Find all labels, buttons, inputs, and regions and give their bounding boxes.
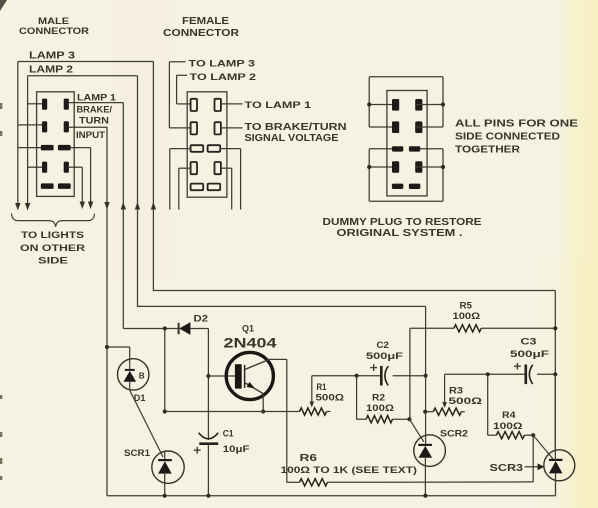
wire: male row3 left pin to lamp3 drop <box>18 147 41 149</box>
male pin row3 right <box>58 145 71 151</box>
label + pointer: SCR3 <box>490 463 545 474</box>
svg-text:500Ω: 500Ω <box>449 396 483 407</box>
SCR1 <box>152 451 184 496</box>
female pin row2 right (hollow) <box>215 122 221 134</box>
svg-text:TO LAMP 3: TO LAMP 3 <box>189 59 256 70</box>
male pin row4 right <box>64 162 69 173</box>
label: ALL PINS FOR ONE SIDE CONNECTED TOGETHER <box>455 119 578 156</box>
SCR3 <box>544 374 575 495</box>
svg-text:TOGETHER: TOGETHER <box>455 145 521 156</box>
label: C2 500uF <box>366 340 403 361</box>
svg-text:R2: R2 <box>372 393 385 403</box>
arrow: lamp3 line up <box>151 202 156 210</box>
svg-text:TO LAMP 1: TO LAMP 1 <box>245 100 312 111</box>
svg-text:DUMMY PLUG TO RESTORE: DUMMY PLUG TO RESTORE <box>323 217 482 228</box>
male pin row2 left <box>42 121 47 132</box>
junction: SCR2 gate node <box>407 417 411 421</box>
male pin row1 right <box>64 99 69 110</box>
transistor Q1 <box>226 352 273 399</box>
dummy pin row5 right <box>409 184 420 189</box>
svg-text:TO LAMP 2: TO LAMP 2 <box>190 72 257 83</box>
dummy pin row5 left <box>392 184 403 189</box>
label: R3 500 ohm <box>449 386 483 408</box>
svg-text:R6: R6 <box>300 453 318 464</box>
svg-text:R4: R4 <box>502 410 517 420</box>
svg-text:2N404: 2N404 <box>224 336 277 352</box>
junction: R2 branch <box>355 374 359 378</box>
dummy pin row1 right <box>415 99 422 111</box>
wire: male row2 left pin to lamp3 drop <box>18 124 42 126</box>
svg-text:100Ω: 100Ω <box>453 311 481 321</box>
label: INPUT <box>76 130 105 140</box>
wire: Q1 emitter to mid rail <box>261 394 265 414</box>
svg-text:SIGNAL VOLTAGE: SIGNAL VOLTAGE <box>245 133 339 144</box>
junction dots: dummy upper loop <box>367 102 445 106</box>
svg-text:CONNECTOR: CONNECTOR <box>19 26 89 37</box>
arrows: male connector outputs to lights <box>15 202 93 211</box>
wire: R5 left drop to gate node <box>409 328 411 419</box>
label: LAMP 3 <box>29 51 76 62</box>
junction: SCR3 gate node <box>531 433 535 437</box>
dummy pin row4 left <box>392 161 399 173</box>
dummy plug body <box>387 91 427 196</box>
male pin row5 right <box>58 183 71 189</box>
female pin row3 left (hollow) <box>191 145 204 152</box>
wire: outer top rail (lamp3 net) <box>153 290 555 292</box>
svg-text:100Ω: 100Ω <box>493 420 523 431</box>
label: SCR1 <box>124 448 151 459</box>
diode D1 <box>118 359 149 391</box>
svg-text:R3: R3 <box>449 386 463 396</box>
label: R2 100 ohm <box>366 393 394 414</box>
svg-text:100Ω: 100Ω <box>366 403 394 413</box>
svg-text:SCR3: SCR3 <box>490 463 524 474</box>
svg-text:INPUT: INPUT <box>76 130 105 140</box>
svg-text:10μF: 10μF <box>223 444 250 454</box>
svg-text:D2: D2 <box>194 314 209 324</box>
wire: male row1 right pin LAMP1 net down to D2 <box>69 103 123 329</box>
male pin row5 left <box>41 183 54 189</box>
SCR2 <box>414 435 446 496</box>
male pin row4 left <box>42 162 47 173</box>
brace: to lights on other side <box>12 214 95 227</box>
svg-text:LAMP 1: LAMP 1 <box>77 93 117 104</box>
wire: female row4 left drop <box>179 168 191 209</box>
label: TO LIGHTS ON OTHER SIDE <box>20 230 85 267</box>
wire: right rail down to SCR3 <box>554 291 556 451</box>
svg-text:TO LIGHTS: TO LIGHTS <box>21 230 85 241</box>
wire: bottom rail <box>107 495 556 497</box>
female pin row3 right (hollow) <box>208 145 221 152</box>
wire: R3 lead on SCR2 anode <box>425 411 433 413</box>
dummy pin row2 left <box>392 121 399 133</box>
svg-text:500μF: 500μF <box>366 350 403 361</box>
female pin row1 left (hollow) <box>191 99 197 111</box>
wire: SCR3 gate diagonal <box>533 435 553 459</box>
resistor R5 <box>410 325 558 332</box>
svg-text:LAMP 2: LAMP 2 <box>29 65 74 76</box>
label: LAMP 1 <box>77 93 117 104</box>
wire: female row3 left drop <box>170 149 191 210</box>
label: SCR2 <box>440 429 468 440</box>
capacitor C1 <box>194 433 218 496</box>
wire: male row2 right pin INPUT net down to left rail <box>69 127 107 496</box>
resistor R4 <box>488 374 534 439</box>
wire + label: TO BRAKE/TURN SIGNAL VOLTAGE <box>221 122 347 144</box>
junction: R4 branch <box>486 372 490 376</box>
label: R5 100 ohm <box>453 301 481 322</box>
svg-text:TO BRAKE/TURN: TO BRAKE/TURN <box>245 122 347 133</box>
diode D1 stub from left rail <box>105 345 130 359</box>
wire: dummy lower loop (rows3-4 shorted) <box>369 149 443 202</box>
male pin row1 left <box>42 99 47 110</box>
svg-text:Q1: Q1 <box>242 324 254 334</box>
svg-text:SCR1: SCR1 <box>124 448 151 459</box>
svg-text:R1: R1 <box>317 382 327 392</box>
svg-text:500Ω: 500Ω <box>316 393 345 403</box>
label: FEMALE CONNECTOR title <box>163 16 240 39</box>
wire: C3 top wire <box>445 372 558 376</box>
wire: mid rail <box>163 409 300 413</box>
wire: D2 to Q1 base / C1 <box>207 329 209 440</box>
female pin row5 right (hollow) <box>208 184 221 191</box>
label: B (inside D1) <box>139 371 145 380</box>
svg-text:LAMP 3: LAMP 3 <box>29 51 76 62</box>
dummy pin row3 right <box>409 146 420 151</box>
svg-text:TURN: TURN <box>79 115 109 125</box>
svg-text:BRAKE/: BRAKE/ <box>77 105 113 115</box>
svg-text:B: B <box>139 371 145 380</box>
svg-text:CONNECTOR: CONNECTOR <box>163 28 240 39</box>
svg-text:C1: C1 <box>223 428 234 438</box>
wire: inner top rail (lamp2 net to SCR2) <box>138 306 426 375</box>
label: MALE CONNECTOR title <box>19 16 89 37</box>
female connector body <box>187 92 227 197</box>
wire: SCR2 gate diagonal <box>409 419 423 442</box>
arrow: input line down <box>104 202 109 210</box>
female pin row5 left (hollow) <box>191 184 204 191</box>
wire: female row4 right drop <box>221 168 232 209</box>
arrow: lamp1 line up <box>121 202 126 210</box>
wire: D2 input wire <box>123 328 178 330</box>
label: DUMMY PLUG TO RESTORE ORIGINAL SYSTEM <box>323 217 482 239</box>
svg-text:100Ω TO 1K (SEE TEXT): 100Ω TO 1K (SEE TEXT) <box>281 465 418 475</box>
label: LAMP 2 <box>29 65 74 76</box>
resistor R6 <box>287 435 533 486</box>
label: C1 10uF <box>223 428 250 454</box>
resistor R1 (rheostat) <box>300 376 331 415</box>
female pin row2 left (hollow) <box>191 122 197 134</box>
junction: Q1 base node <box>206 374 235 378</box>
junction node: D2 wire branch down to mid rail <box>163 326 167 411</box>
wire: lamp 2 net (horizontal + left drop + right drop to circuit) <box>28 76 138 307</box>
dummy pin row4 right <box>415 161 422 173</box>
arrow: lamp2 line up <box>135 202 140 210</box>
label: D2 <box>194 314 209 324</box>
svg-text:C3: C3 <box>521 337 537 348</box>
capacitor C2 <box>370 364 388 385</box>
wire: C2/SCR2 anode vertical <box>423 374 428 445</box>
resistor R3 (rheostat) <box>433 374 465 415</box>
junction dots: dummy lower loop <box>367 165 445 169</box>
female pin row4 left (hollow) <box>191 162 197 174</box>
svg-text:500μF: 500μF <box>510 348 549 359</box>
wire: male row3 right pin drop <box>71 148 91 202</box>
wire: female row3 right drop <box>220 149 240 210</box>
svg-text:C2: C2 <box>377 340 390 350</box>
svg-text:SIDE CONNECTED: SIDE CONNECTED <box>455 132 560 143</box>
female pin row4 right (hollow) <box>215 162 221 174</box>
junction dots: bottom rail <box>163 494 428 498</box>
label: BRAKE/TURN <box>77 105 113 126</box>
wire + label: TO LAMP 1 <box>221 100 312 111</box>
diode D2 <box>179 322 209 335</box>
male pin row3 left <box>41 145 54 151</box>
male connector body <box>37 92 75 197</box>
wire: male row4 right pin drop <box>69 167 82 201</box>
svg-text:SCR2: SCR2 <box>440 429 468 440</box>
wire: male row1 left pin to lamp2 drop <box>28 103 42 105</box>
svg-text:ON OTHER: ON OTHER <box>20 243 85 254</box>
label + leader: TO LAMP 2 <box>177 72 256 104</box>
wire: lamp 3 net (horizontal + left drop + right drop to circuit) <box>18 62 154 292</box>
svg-text:SIDE: SIDE <box>38 256 69 267</box>
svg-text:ALL PINS FOR ONE: ALL PINS FOR ONE <box>455 119 578 130</box>
label: R4 100 ohm <box>493 410 523 431</box>
wire: C2 top wire <box>312 375 426 377</box>
svg-text:ORIGINAL SYSTEM .: ORIGINAL SYSTEM . <box>337 228 463 239</box>
wire: Q1 collector to R6 drop <box>269 359 287 482</box>
svg-text:R5: R5 <box>460 301 473 311</box>
capacitor C3 <box>514 363 533 384</box>
label: R1 500 ohm <box>316 382 345 403</box>
wire: D1 cathode diagonal to SCR1 <box>130 390 163 457</box>
label: R6 100 ohm to 1K (see text) <box>281 453 418 475</box>
wire: dummy upper loop (rows1-2 shorted) <box>369 77 443 127</box>
resistor R2 <box>357 376 410 423</box>
wire: male row4 left pin to lamp2 drop <box>28 166 42 168</box>
transistor Q1 labels <box>224 324 277 352</box>
female pin row1 right (hollow) <box>215 99 221 111</box>
dummy pin row3 left <box>392 146 403 151</box>
dummy pin row1 left <box>392 99 399 111</box>
label: C3 500uF <box>510 337 549 359</box>
label + leader: TO LAMP 3 <box>169 59 255 128</box>
label: D1 <box>134 393 146 403</box>
dummy pin row2 right <box>415 121 422 133</box>
male pin row2 right <box>64 121 69 132</box>
svg-text:FEMALE: FEMALE <box>182 16 229 27</box>
